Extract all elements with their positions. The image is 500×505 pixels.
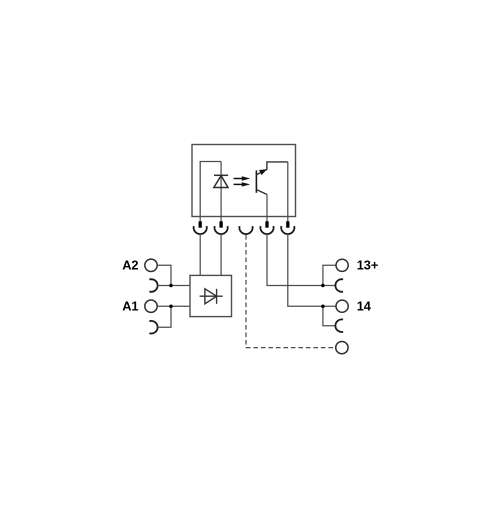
wire: A2 circle to node bbox=[157, 265, 171, 285]
svg-text:14: 14 bbox=[357, 298, 372, 313]
socket A2 bbox=[149, 279, 157, 292]
node dot 13+ bbox=[321, 284, 325, 288]
terminal circle 13+ bbox=[336, 259, 348, 271]
node dot A1 bbox=[169, 304, 173, 308]
terminal socket 3 (middle, unused) bbox=[239, 226, 252, 234]
dashed wire: terminal 3 to bottom circle bbox=[246, 235, 336, 348]
socket 14 bbox=[335, 319, 343, 332]
wire: A1 socket to node bbox=[158, 306, 171, 327]
wire: terminal 5 to 14 circle bbox=[288, 234, 336, 306]
phototransistor Q1 bbox=[256, 162, 287, 195]
terminal pin 2 bbox=[219, 221, 222, 227]
optocoupler U1 box bbox=[192, 145, 296, 217]
wire: 13+ node to socket bbox=[323, 285, 336, 287]
LED D1 triangle bbox=[214, 176, 228, 188]
node dot 14 bbox=[321, 304, 325, 308]
svg-text:A2: A2 bbox=[122, 257, 138, 272]
svg-text:13+: 13+ bbox=[357, 257, 379, 272]
socket A1 bbox=[149, 321, 157, 334]
terminal circle A1 bbox=[145, 300, 157, 312]
terminal socket 2 bbox=[215, 226, 228, 234]
diode D2 inside box bbox=[200, 289, 223, 304]
rectifier box B1 bbox=[190, 275, 232, 316]
terminal pin 5 bbox=[286, 221, 289, 227]
wire: terminal1 riser to LED top bbox=[200, 162, 221, 222]
terminal pin 4 bbox=[265, 221, 268, 227]
terminal socket 5 bbox=[281, 226, 294, 234]
terminal circle 14 bbox=[336, 300, 348, 312]
wire: Q1 collector to terminal 4 bbox=[266, 195, 268, 222]
terminal circle A2 bbox=[145, 259, 157, 271]
wire: A2 socket to rectifier box bbox=[158, 285, 190, 287]
svg-text:A1: A1 bbox=[122, 298, 138, 313]
terminal socket 1 bbox=[194, 226, 207, 234]
wire: Q1 emitter to terminal 5 bbox=[287, 162, 289, 222]
node dot A2 bbox=[169, 284, 173, 288]
bottom terminal circle bbox=[336, 341, 348, 353]
wire: 13+ node up to circle bbox=[323, 265, 336, 285]
LED D1 cathode bar bbox=[214, 174, 228, 176]
terminal pin 1 bbox=[199, 221, 202, 227]
wire: terminal 1 to rectifier box bbox=[199, 234, 201, 275]
wire: terminal 2 to rectifier box bbox=[220, 234, 222, 275]
light arrow 2 bbox=[234, 182, 251, 186]
socket 13+ bbox=[335, 279, 343, 292]
wire: A1 circle to rectifier box bbox=[157, 305, 190, 307]
wire: 14 node down to socket bbox=[323, 306, 336, 326]
light arrow 1 bbox=[234, 176, 251, 180]
wire: terminal 4 to 13+ node bbox=[267, 234, 323, 285]
wire: LED branch vertical bbox=[220, 162, 222, 222]
terminal socket 4 bbox=[260, 226, 273, 234]
